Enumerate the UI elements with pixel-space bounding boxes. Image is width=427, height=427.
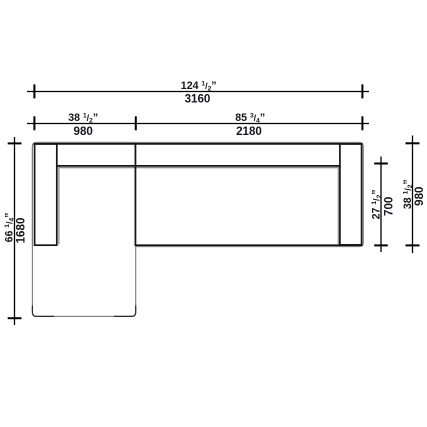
svg-text:124 1/2”: 124 1/2” [181,80,217,92]
svg-text:700: 700 [382,197,395,216]
svg-text:2180: 2180 [236,125,262,138]
svg-text:3160: 3160 [185,92,211,105]
svg-text:980: 980 [74,125,93,138]
svg-text:980: 980 [413,187,426,206]
svg-text:1680: 1680 [15,218,28,244]
